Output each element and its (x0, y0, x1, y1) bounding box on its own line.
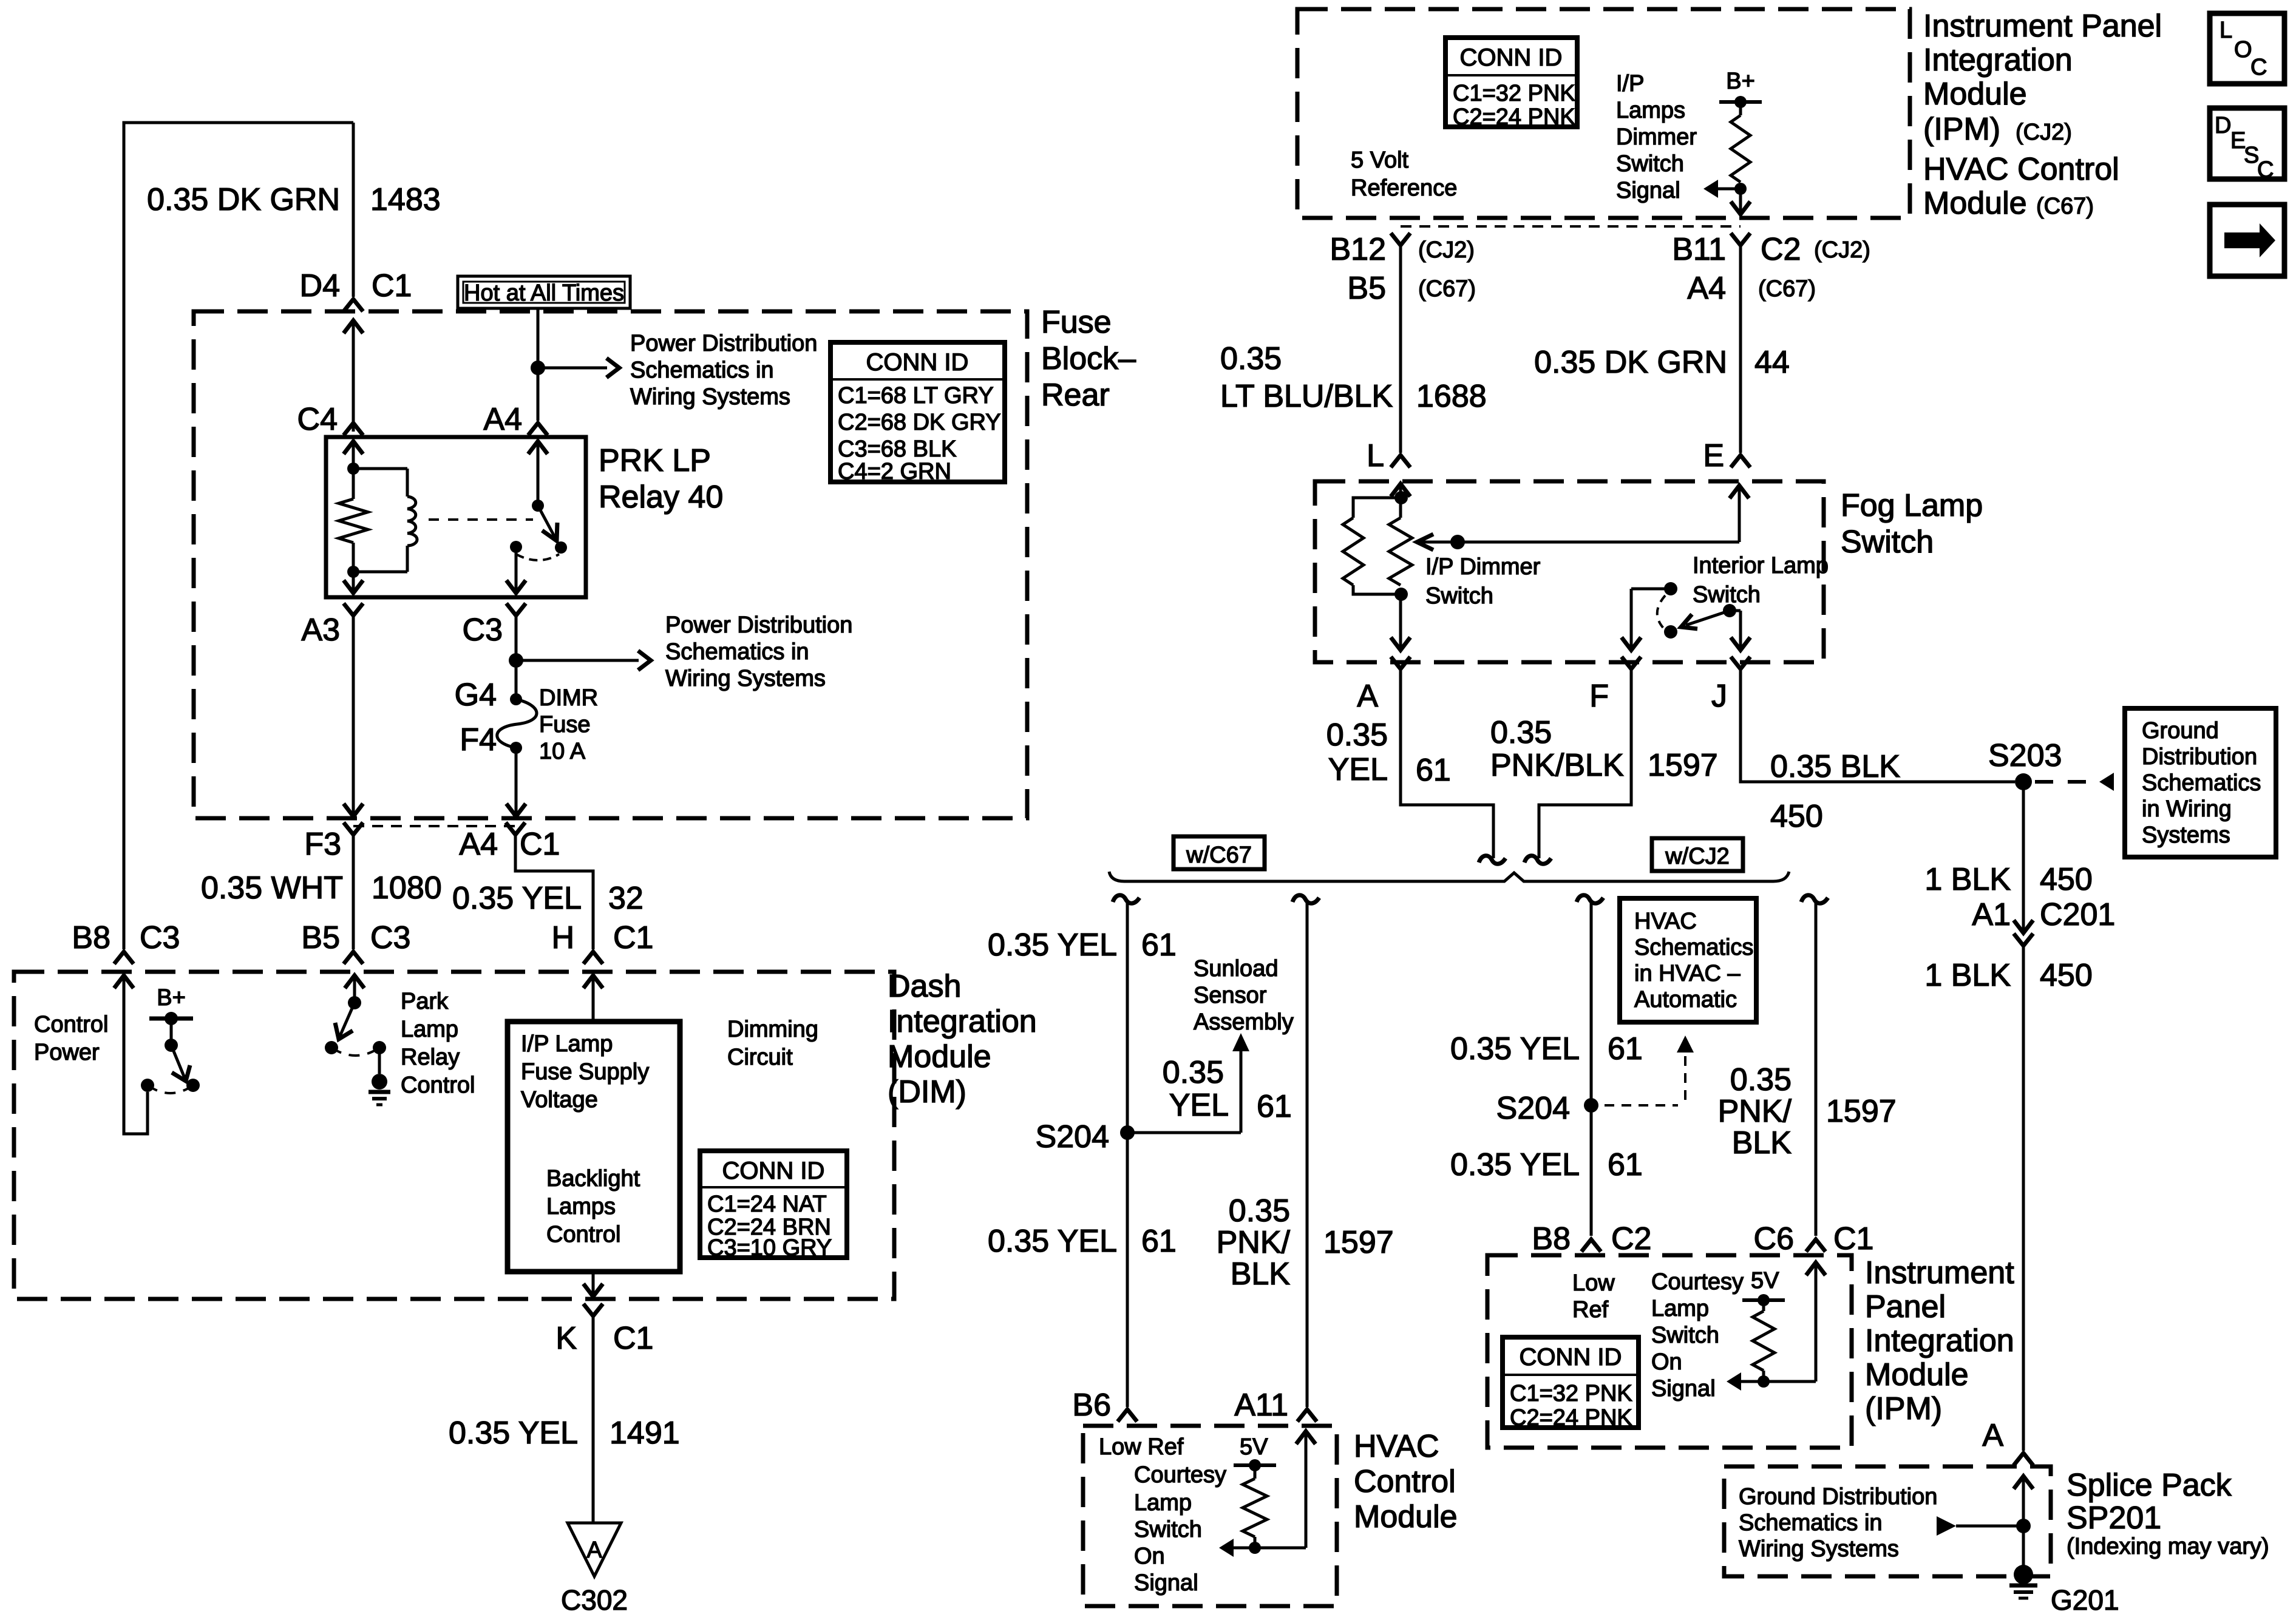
svg-text:SP201: SP201 (2067, 1500, 2161, 1536)
svg-text:1597: 1597 (1826, 1094, 1897, 1129)
svg-text:Fog Lamp: Fog Lamp (1841, 488, 1983, 523)
svg-text:CONN ID: CONN ID (1520, 1344, 1622, 1371)
svg-text:C1: C1 (520, 827, 560, 862)
svg-text:I/P Dimmer: I/P Dimmer (1425, 554, 1541, 580)
svg-text:Schematics: Schematics (1634, 935, 1753, 960)
svg-text:0.35: 0.35 (1229, 1193, 1290, 1229)
svg-text:A4: A4 (483, 402, 522, 437)
svg-text:Ground Distribution: Ground Distribution (1739, 1484, 1937, 1510)
svg-text:C2=24 PNK: C2=24 PNK (1510, 1405, 1632, 1431)
svg-text:61: 61 (1416, 753, 1451, 788)
svg-text:A4: A4 (1687, 271, 1726, 306)
svg-text:61: 61 (1257, 1089, 1292, 1124)
svg-text:Power Distribution: Power Distribution (665, 612, 852, 638)
svg-text:(IPM): (IPM) (1865, 1391, 1942, 1426)
svg-text:BLK: BLK (1732, 1125, 1792, 1161)
svg-text:5V: 5V (1751, 1268, 1779, 1293)
svg-text:Switch: Switch (1841, 524, 1934, 560)
svg-text:C1=68 LT GRY: C1=68 LT GRY (838, 383, 994, 408)
svg-text:(C67): (C67) (2036, 194, 2094, 219)
svg-text:CONN ID: CONN ID (866, 349, 969, 376)
svg-text:61: 61 (1608, 1147, 1643, 1182)
svg-text:C2: C2 (1761, 232, 1801, 267)
svg-text:Fuse: Fuse (539, 712, 590, 737)
svg-text:C2=24 PNK: C2=24 PNK (1453, 104, 1575, 130)
svg-text:Signal: Signal (1616, 178, 1680, 203)
svg-text:DIMR: DIMR (539, 685, 598, 711)
svg-text:61: 61 (1141, 1224, 1177, 1259)
svg-text:(DIM): (DIM) (888, 1074, 966, 1110)
svg-text:Signal: Signal (1651, 1376, 1716, 1402)
svg-text:L: L (1367, 438, 1384, 473)
svg-text:Panel: Panel (1865, 1289, 1946, 1324)
svg-text:CONN ID: CONN ID (722, 1158, 825, 1184)
svg-text:PNK/: PNK/ (1718, 1094, 1792, 1129)
svg-text:450: 450 (2040, 862, 2093, 897)
svg-text:Power: Power (34, 1040, 100, 1065)
svg-text:CONN ID: CONN ID (1460, 44, 1563, 71)
svg-text:C1: C1 (1833, 1221, 1873, 1256)
svg-text:Block–: Block– (1041, 341, 1136, 376)
svg-text:On: On (1651, 1349, 1682, 1375)
svg-text:(CJ2): (CJ2) (1418, 237, 1475, 263)
svg-text:C: C (2257, 157, 2274, 183)
svg-text:S204: S204 (1036, 1119, 1109, 1154)
svg-text:B6: B6 (1072, 1388, 1111, 1423)
svg-text:B8: B8 (72, 920, 110, 955)
svg-text:F4: F4 (460, 722, 497, 758)
svg-text:450: 450 (1770, 799, 1823, 834)
svg-text:Signal: Signal (1134, 1570, 1198, 1596)
svg-text:Ref: Ref (1572, 1297, 1609, 1323)
svg-text:F3: F3 (304, 827, 341, 862)
svg-text:0.35 YEL: 0.35 YEL (1450, 1147, 1580, 1182)
svg-text:0.35 YEL: 0.35 YEL (988, 1224, 1117, 1259)
svg-text:Hot at All Times: Hot at All Times (464, 280, 624, 306)
svg-text:Assembly: Assembly (1194, 1009, 1294, 1035)
svg-text:I/P Lamp: I/P Lamp (521, 1031, 613, 1057)
svg-text:Courtesy: Courtesy (1134, 1462, 1226, 1488)
svg-text:(C67): (C67) (1758, 276, 1816, 302)
svg-text:HVAC Control: HVAC Control (1923, 152, 2119, 187)
svg-text:w/CJ2: w/CJ2 (1665, 844, 1730, 869)
svg-text:B+: B+ (157, 985, 186, 1011)
svg-text:PNK/: PNK/ (1217, 1225, 1291, 1260)
svg-text:(IPM): (IPM) (1923, 112, 2000, 147)
svg-text:Power Distribution: Power Distribution (630, 331, 817, 356)
svg-text:0.35: 0.35 (1490, 715, 1552, 750)
svg-text:C1: C1 (613, 1321, 653, 1356)
svg-text:C2: C2 (1611, 1221, 1651, 1256)
svg-text:C: C (2250, 55, 2267, 80)
svg-text:1 BLK: 1 BLK (1924, 958, 2011, 993)
svg-text:C3: C3 (463, 612, 503, 648)
svg-text:in Wiring: in Wiring (2142, 796, 2232, 822)
svg-text:0.35 YEL: 0.35 YEL (988, 927, 1117, 963)
svg-text:D4: D4 (300, 268, 340, 303)
svg-text:Module: Module (1923, 186, 2027, 221)
svg-text:(CJ2): (CJ2) (1814, 237, 1870, 263)
svg-text:Control: Control (34, 1012, 109, 1037)
svg-text:C3=10 GRY: C3=10 GRY (707, 1235, 832, 1261)
svg-text:S204: S204 (1496, 1091, 1570, 1126)
svg-text:Low: Low (1572, 1270, 1615, 1296)
svg-text:C1=32 PNK: C1=32 PNK (1510, 1381, 1632, 1406)
svg-text:Integration: Integration (1865, 1323, 2014, 1358)
svg-text:0.35: 0.35 (1220, 341, 1282, 376)
svg-text:B12: B12 (1330, 232, 1386, 267)
svg-text:A: A (1982, 1418, 2003, 1453)
svg-text:C1: C1 (613, 920, 653, 955)
svg-text:Wiring Systems: Wiring Systems (1739, 1536, 1899, 1562)
svg-text:C3: C3 (370, 920, 410, 955)
svg-text:Schematics in: Schematics in (665, 639, 809, 665)
svg-text:Lamp: Lamp (401, 1017, 458, 1042)
svg-text:10 A: 10 A (539, 739, 586, 764)
svg-text:C1=32 PNK: C1=32 PNK (1453, 81, 1575, 106)
svg-text:0.35: 0.35 (1326, 717, 1388, 753)
svg-text:Schematics in: Schematics in (630, 358, 774, 383)
svg-text:Rear: Rear (1041, 378, 1110, 413)
svg-text:Control: Control (546, 1222, 621, 1247)
svg-text:0.35 DK GRN: 0.35 DK GRN (1534, 345, 1727, 380)
svg-text:D: D (2215, 113, 2231, 138)
svg-text:1080: 1080 (372, 870, 442, 906)
svg-text:A: A (586, 1537, 602, 1563)
svg-text:C1=24 NAT: C1=24 NAT (707, 1192, 827, 1217)
svg-text:O: O (2234, 37, 2252, 63)
svg-text:(Indexing may vary): (Indexing may vary) (2067, 1534, 2269, 1559)
svg-text:PRK LP: PRK LP (599, 443, 711, 478)
svg-text:Dimming: Dimming (727, 1017, 818, 1042)
svg-text:G201: G201 (2051, 1584, 2119, 1616)
svg-text:1597: 1597 (1648, 748, 1718, 783)
svg-text:Sensor: Sensor (1194, 983, 1267, 1008)
svg-text:Lamps: Lamps (546, 1194, 616, 1219)
svg-text:F: F (1589, 679, 1609, 714)
svg-text:0.35 YEL: 0.35 YEL (449, 1415, 578, 1451)
svg-text:Module: Module (888, 1039, 991, 1074)
svg-text:B11: B11 (1672, 232, 1726, 267)
svg-text:Sunload: Sunload (1194, 956, 1278, 981)
svg-text:Lamps: Lamps (1616, 98, 1685, 123)
svg-text:Control: Control (1354, 1464, 1456, 1499)
svg-text:Switch: Switch (1651, 1323, 1719, 1348)
svg-text:1597: 1597 (1323, 1225, 1394, 1260)
svg-text:0.35 DK GRN: 0.35 DK GRN (147, 182, 340, 217)
svg-text:Instrument Panel: Instrument Panel (1923, 8, 2162, 44)
svg-text:I/P: I/P (1616, 71, 1644, 97)
svg-text:Integration: Integration (888, 1004, 1037, 1039)
svg-text:Module: Module (1354, 1499, 1458, 1534)
svg-text:Voltage: Voltage (521, 1087, 598, 1113)
svg-text:G4: G4 (455, 677, 497, 713)
svg-text:Switch: Switch (1134, 1517, 1202, 1542)
svg-text:(C67): (C67) (1418, 276, 1476, 302)
svg-text:J: J (1711, 679, 1727, 714)
svg-text:Dash: Dash (888, 969, 961, 1004)
svg-text:HVAC: HVAC (1354, 1429, 1439, 1464)
svg-text:1491: 1491 (610, 1415, 680, 1451)
svg-text:32: 32 (608, 881, 644, 916)
svg-text:C2=68 DK GRY: C2=68 DK GRY (838, 410, 1001, 435)
svg-text:in HVAC –: in HVAC – (1634, 961, 1741, 986)
svg-text:C4: C4 (297, 402, 338, 437)
svg-text:C6: C6 (1754, 1221, 1794, 1256)
svg-text:B5: B5 (301, 920, 340, 955)
svg-text:Backlight: Backlight (546, 1166, 640, 1192)
svg-text:BLK: BLK (1231, 1256, 1291, 1292)
svg-text:C3=68 BLK: C3=68 BLK (838, 436, 956, 462)
svg-text:C201: C201 (2040, 897, 2115, 932)
svg-text:C1: C1 (372, 268, 412, 303)
svg-text:Schematics: Schematics (2142, 770, 2261, 796)
svg-text:0.35 BLK: 0.35 BLK (1770, 749, 1900, 784)
svg-text:A1: A1 (1972, 897, 2011, 932)
svg-text:Park: Park (401, 989, 449, 1014)
svg-text:0.35: 0.35 (1730, 1062, 1792, 1097)
svg-text:YEL: YEL (1169, 1088, 1229, 1123)
svg-text:C4=2 GRN: C4=2 GRN (838, 459, 951, 484)
svg-text:Relay 40: Relay 40 (599, 480, 723, 515)
svg-text:Systems: Systems (2142, 822, 2230, 848)
svg-text:w/C67: w/C67 (1186, 842, 1252, 868)
svg-text:5 Volt: 5 Volt (1351, 147, 1409, 173)
svg-text:Switch: Switch (1425, 583, 1493, 609)
svg-text:Integration: Integration (1923, 42, 2073, 78)
svg-text:S203: S203 (1988, 738, 2062, 773)
svg-text:PNK/BLK: PNK/BLK (1490, 748, 1624, 783)
svg-text:Control: Control (401, 1073, 475, 1098)
svg-text:Switch: Switch (1616, 151, 1684, 177)
svg-text:C302: C302 (561, 1584, 628, 1616)
svg-text:Relay: Relay (401, 1045, 460, 1070)
svg-text:Lamp: Lamp (1134, 1490, 1192, 1516)
svg-text:Splice Pack: Splice Pack (2067, 1468, 2232, 1503)
svg-text:Instrument: Instrument (1865, 1255, 2014, 1290)
svg-text:E: E (1703, 438, 1724, 473)
svg-text:YEL: YEL (1328, 752, 1388, 787)
svg-text:1688: 1688 (1416, 379, 1487, 414)
svg-text:44: 44 (1754, 345, 1790, 380)
svg-text:Module: Module (1923, 76, 2027, 112)
svg-text:Interior Lamp: Interior Lamp (1693, 553, 1829, 578)
svg-text:Wiring Systems: Wiring Systems (630, 384, 790, 410)
svg-text:Ground: Ground (2142, 718, 2219, 744)
svg-text:Schematics in: Schematics in (1739, 1510, 1883, 1536)
svg-text:B+: B+ (1726, 69, 1755, 94)
svg-text:B5: B5 (1347, 271, 1386, 306)
svg-text:A11: A11 (1234, 1388, 1288, 1423)
svg-text:On: On (1134, 1544, 1165, 1569)
svg-text:(CJ2): (CJ2) (2016, 120, 2072, 145)
svg-text:Automatic: Automatic (1634, 987, 1737, 1012)
svg-text:Module: Module (1865, 1357, 1969, 1392)
svg-text:Circuit: Circuit (727, 1045, 793, 1070)
svg-text:Low Ref: Low Ref (1099, 1434, 1184, 1460)
svg-text:A3: A3 (301, 612, 340, 648)
svg-text:Dimmer: Dimmer (1616, 124, 1697, 150)
svg-text:Lamp: Lamp (1651, 1296, 1709, 1321)
svg-text:5V: 5V (1240, 1434, 1268, 1460)
svg-text:0.35 YEL: 0.35 YEL (452, 881, 582, 916)
svg-text:L: L (2220, 18, 2232, 43)
svg-text:Fuse Supply: Fuse Supply (521, 1059, 649, 1085)
svg-text:B8: B8 (1532, 1221, 1571, 1256)
svg-text:Distribution: Distribution (2142, 744, 2257, 770)
svg-text:Switch: Switch (1693, 582, 1761, 608)
svg-text:H: H (551, 920, 574, 955)
svg-text:0.35: 0.35 (1163, 1055, 1224, 1090)
svg-text:Fuse: Fuse (1041, 305, 1112, 340)
svg-text:Reference: Reference (1351, 175, 1457, 201)
svg-text:K: K (555, 1321, 577, 1356)
svg-text:0.35 WHT: 0.35 WHT (201, 870, 343, 906)
svg-text:LT BLU/BLK: LT BLU/BLK (1220, 379, 1393, 414)
svg-text:61: 61 (1608, 1031, 1643, 1066)
svg-text:61: 61 (1141, 927, 1177, 963)
svg-text:HVAC: HVAC (1634, 909, 1697, 934)
svg-text:450: 450 (2040, 958, 2093, 993)
svg-text:0.35 YEL: 0.35 YEL (1450, 1031, 1580, 1066)
svg-text:C3: C3 (140, 920, 180, 955)
svg-text:Courtesy: Courtesy (1651, 1269, 1744, 1295)
svg-text:Wiring Systems: Wiring Systems (665, 666, 826, 691)
svg-text:A: A (1357, 679, 1378, 714)
svg-text:A4: A4 (459, 827, 498, 862)
svg-text:1 BLK: 1 BLK (1924, 862, 2011, 897)
svg-text:1483: 1483 (370, 182, 441, 217)
